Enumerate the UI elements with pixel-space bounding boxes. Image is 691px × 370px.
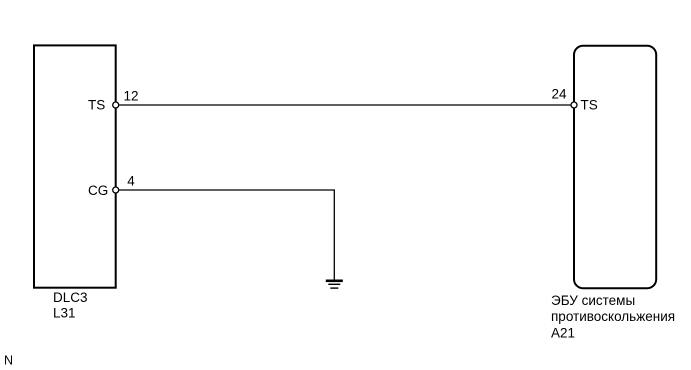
wire CG vertical segment down to ground bbox=[333, 189, 335, 280]
svg-text:N: N bbox=[4, 354, 13, 368]
svg-text:TS: TS bbox=[581, 98, 598, 113]
pin terminal circle: ECU pin 24 (TS) bbox=[571, 102, 577, 108]
ground symbol bbox=[326, 280, 343, 289]
ECU A21 body (skid control ECU) bbox=[574, 46, 656, 288]
svg-text:DLC3: DLC3 bbox=[53, 290, 88, 305]
wire TS: DLC3 pin 12 to ECU pin 24 bbox=[119, 104, 571, 106]
svg-text:TS: TS bbox=[88, 98, 105, 113]
svg-text:24: 24 bbox=[551, 87, 567, 102]
wire CG horizontal segment: DLC3 pin 4 to ground drop bbox=[119, 189, 334, 191]
connector DLC3 L31 body bbox=[34, 45, 116, 287]
pin terminal circle: DLC3 pin 12 (TS) bbox=[113, 102, 119, 108]
svg-text:L31: L31 bbox=[53, 306, 76, 321]
svg-text:ЭБУ системы: ЭБУ системы bbox=[551, 293, 635, 308]
pin terminal circle: DLC3 pin 4 (CG) bbox=[113, 187, 119, 193]
svg-text:противоскольжения: противоскольжения bbox=[551, 309, 675, 324]
svg-text:4: 4 bbox=[127, 174, 135, 189]
svg-text:CG: CG bbox=[88, 183, 108, 198]
svg-text:А21: А21 bbox=[551, 325, 575, 340]
svg-text:12: 12 bbox=[123, 89, 138, 104]
